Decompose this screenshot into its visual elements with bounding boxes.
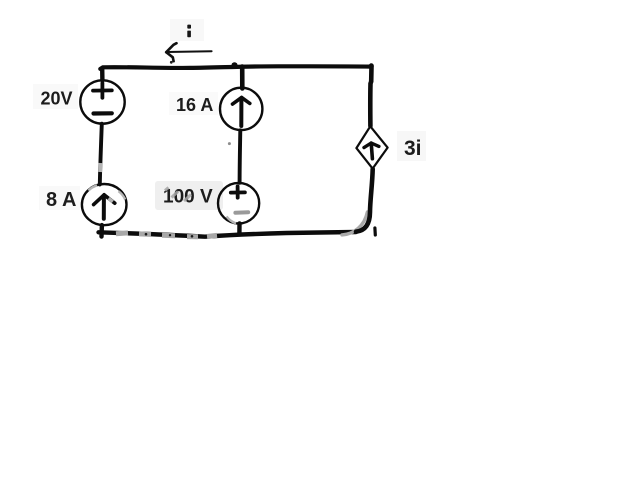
wire: middle segment between sources (238, 130, 243, 183)
wire: right vertical top (370, 66, 371, 126)
watermark gray stripes on bottom wire (116, 233, 217, 237)
wire: bottom horizontal (99, 232, 357, 237)
dependent source 3i (diamond) (356, 126, 387, 168)
wire: right bottom corner tick (373, 228, 377, 235)
label i (187, 25, 191, 38)
wire: 8A bottom stub (99, 225, 104, 236)
wire: 100V bottom stub (237, 223, 242, 234)
watermark black flecks within stripes (145, 233, 194, 238)
wire: top horizontal (100, 66, 371, 69)
wire: right vertical bottom (356, 169, 373, 232)
wire: middle top stub (240, 67, 245, 89)
watermark gray on 8A circle arcs (89, 185, 126, 199)
current source I1 8A (82, 184, 127, 225)
node: stray gray dot (228, 142, 231, 145)
wire: gray corner shadow (342, 212, 367, 235)
svg-text:8 A: 8 A (46, 189, 76, 211)
svg-text:3i: 3i (404, 137, 422, 160)
watermark gray stripe on left wire (98, 163, 102, 172)
voltage source U2 100V (218, 183, 259, 224)
node: junction dot on top wire (231, 62, 237, 68)
watermark gray on 100V circle bottom arc (227, 217, 237, 224)
wire: left middle segment (100, 124, 102, 185)
watermark gray on 8A arrow barb (109, 198, 113, 201)
current source I2 16A (220, 88, 262, 130)
current arrow i (166, 43, 211, 61)
svg-text:16 A: 16 A (176, 95, 213, 115)
voltage source U1 20V (80, 80, 124, 123)
node: top-right corner bump (369, 63, 374, 68)
wire: 20V top stub (100, 68, 105, 80)
svg-text:20V: 20V (41, 89, 73, 109)
node: small tick on top wire (170, 61, 173, 64)
